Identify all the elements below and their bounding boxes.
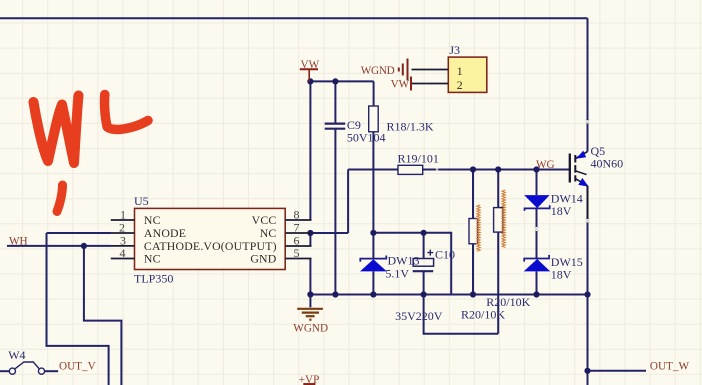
wire emitter down to bottom rail	[587, 223, 589, 295]
node VW rail junction 1	[307, 78, 313, 84]
svg-text:U5: U5	[134, 194, 149, 208]
node rail R20a	[470, 291, 476, 297]
node gate row R20a	[470, 166, 476, 172]
pin break mark R19 right	[436, 168, 439, 171]
wire WH net	[7, 245, 111, 247]
marker W stroke	[34, 96, 79, 164]
node WH junction	[81, 243, 87, 249]
node rail C9	[332, 291, 338, 297]
wire VW top rail	[310, 80, 373, 82]
wire R20b column	[497, 170, 499, 334]
Q5 collector arrow	[576, 151, 586, 159]
wire staircase A	[47, 233, 109, 385]
node rail zener chain	[533, 291, 539, 297]
power port VW sideways at J3 pin2	[410, 77, 412, 91]
svg-text:NC: NC	[260, 226, 277, 240]
wire pin7 horizontal	[311, 232, 348, 234]
wire C9 column upper	[334, 81, 336, 123]
node pin7 junction	[307, 230, 313, 236]
wire C10 stem lower	[423, 272, 425, 295]
Q5 emitter arrow	[578, 178, 588, 187]
svg-text:VW: VW	[391, 79, 410, 91]
svg-text:ANODE: ANODE	[144, 226, 186, 240]
wire pin6 riser	[309, 233, 311, 246]
svg-text:VW: VW	[301, 59, 320, 71]
wire emitter rail to OUT_W corner and bottom edge	[587, 295, 589, 385]
svg-text:8: 8	[294, 208, 300, 222]
svg-text:R19/101: R19/101	[398, 152, 439, 166]
wire pin5 drop to ground rail	[309, 259, 311, 295]
node rail WGND	[307, 291, 313, 297]
wire pin7 net extension to C10 and rail	[373, 233, 451, 295]
op-amp U5 body	[135, 208, 286, 269]
wire OUT_W stub	[588, 370, 647, 372]
node VW rail junction 2	[332, 78, 338, 84]
svg-text:7: 7	[294, 221, 300, 235]
svg-text:WH: WH	[9, 236, 28, 248]
wire zener chain column	[536, 170, 538, 295]
wire DW13 to rail	[372, 271, 374, 294]
wire W4 left stub	[0, 370, 9, 372]
wire R20a column	[472, 170, 474, 295]
wire R18 column middle	[372, 132, 374, 259]
wire C9 column lower	[334, 130, 336, 295]
node OUT_W junction	[584, 368, 590, 374]
svg-text:NC: NC	[144, 213, 161, 227]
svg-text:C10: C10	[435, 248, 455, 262]
svg-text:WG: WG	[536, 159, 555, 171]
svg-text:VCC: VCC	[252, 213, 277, 227]
svg-text:2: 2	[119, 221, 125, 235]
svg-text:R18/1.3K: R18/1.3K	[387, 120, 434, 134]
svg-text:2: 2	[457, 78, 463, 92]
pin break mark emitter	[586, 219, 590, 223]
resistor R20b zigzag overlay	[502, 190, 505, 248]
wire C10 stem upper	[423, 233, 425, 259]
node R18-pin7net junction	[370, 230, 376, 236]
marker comma stroke	[57, 185, 63, 212]
Q5 channel dashed	[574, 155, 576, 182]
wire pin2 from corner	[47, 232, 112, 234]
svg-text:R20/10K: R20/10K	[461, 308, 505, 322]
wire U-dip below rail to C10 junction	[424, 295, 499, 334]
J3 pin 2 line	[412, 83, 449, 85]
svg-text:5.1V: 5.1V	[385, 267, 409, 281]
Q5 mid tap	[575, 171, 586, 175]
wire W4 right stub	[45, 370, 58, 372]
wire collector drop from top rail	[587, 18, 589, 120]
svg-text:WGND: WGND	[361, 65, 395, 77]
svg-text:GND: GND	[250, 252, 276, 266]
node gate row R20b	[495, 166, 501, 172]
Q5 emitter pin	[587, 186, 589, 219]
node rail DW13	[370, 291, 376, 297]
Q5 gate bar	[569, 154, 571, 183]
node C10 tap junction	[421, 230, 427, 236]
svg-text:WGND: WGND	[293, 323, 328, 335]
svg-text:J3: J3	[449, 43, 460, 57]
svg-text:4: 4	[120, 246, 126, 260]
J3 pin 1 line	[412, 69, 449, 71]
svg-text:OUT_V: OUT_V	[59, 361, 96, 373]
svg-text:40N60: 40N60	[591, 156, 624, 170]
svg-text:18V: 18V	[551, 268, 572, 282]
Q5 emitter diagonal	[575, 179, 587, 186]
wire collector lower to Q5	[587, 124, 589, 152]
svg-text:18V: 18V	[551, 204, 572, 218]
svg-text:DW13: DW13	[388, 254, 420, 268]
node gate row WG	[533, 166, 539, 172]
U5 left pins	[111, 220, 135, 259]
pin break mark collector	[586, 120, 590, 124]
node rail C10	[421, 291, 427, 297]
svg-text:50V104: 50V104	[347, 131, 386, 145]
power port WGND sideways at J3 pin1	[399, 59, 408, 81]
svg-text:TLP350: TLP350	[134, 272, 173, 286]
pin break mark zener chain	[535, 227, 539, 231]
wire bottom ground rail	[310, 294, 587, 296]
wire R18 column upper	[373, 81, 375, 106]
wire staircase B	[84, 246, 122, 385]
svg-text:5: 5	[294, 246, 300, 260]
Q5 collector diagonal	[576, 152, 588, 159]
svg-text:1: 1	[120, 208, 126, 222]
node rail emitter	[584, 291, 590, 297]
U5 right pins	[285, 220, 311, 259]
marker L stroke	[105, 95, 148, 130]
wire pin8 riser to VW rail	[309, 81, 311, 220]
svg-text:W4: W4	[8, 348, 25, 362]
wire top border rail	[0, 17, 588, 19]
wire gate row	[348, 169, 569, 171]
svg-text:35V220V: 35V220V	[395, 309, 443, 323]
svg-text:NC: NC	[144, 252, 161, 266]
wire pin7 riser to gate row	[347, 170, 349, 234]
resistor R20a zigzag overlay	[477, 205, 480, 251]
resistor R20b	[494, 208, 503, 233]
svg-text:OUT_W: OUT_W	[650, 361, 690, 373]
svg-text:1: 1	[457, 64, 463, 78]
